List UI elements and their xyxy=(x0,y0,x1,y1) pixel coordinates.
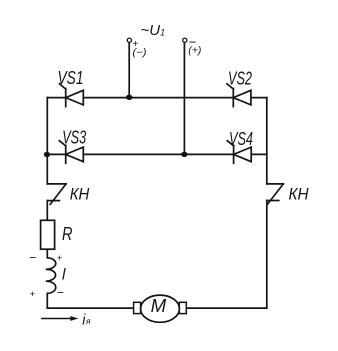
thyristor VS1 xyxy=(59,84,83,107)
inductor L xyxy=(46,258,56,294)
svg-text:VS3: VS3 xyxy=(62,128,86,148)
motor M brush right xyxy=(179,302,186,313)
contact KH right xyxy=(267,184,284,204)
wire terminal plus drop xyxy=(183,43,185,155)
svg-text:−: − xyxy=(29,250,36,264)
thyristor VS4 xyxy=(227,141,251,164)
resistor R xyxy=(41,220,55,249)
wire left rail upper xyxy=(46,98,48,184)
wire left rail mid xyxy=(46,201,48,258)
thyristor VS3 xyxy=(59,141,83,164)
wire right rail upper xyxy=(266,98,268,184)
motor M body xyxy=(141,295,180,322)
svg-text:iя: iя xyxy=(82,312,91,328)
wire bottom xyxy=(47,307,266,309)
svg-text:+: + xyxy=(57,253,63,264)
svg-text:M: M xyxy=(151,296,167,316)
wire row1 horizontal xyxy=(47,97,266,99)
terminal (−) circle xyxy=(127,38,131,42)
wire terminal minus drop xyxy=(128,43,130,98)
junction node at left terminal on row1 xyxy=(126,95,132,100)
wire right rail lower xyxy=(266,201,268,309)
terminal (+) circle xyxy=(183,38,187,42)
svg-text:КН: КН xyxy=(289,184,310,203)
contact KH left xyxy=(47,184,66,204)
svg-text:R: R xyxy=(62,223,73,244)
svg-text:+: + xyxy=(30,289,36,300)
current arrow i xyxy=(41,316,78,321)
junction node at right terminal on row2 xyxy=(181,152,187,157)
svg-text:−: − xyxy=(57,286,64,300)
svg-text:l: l xyxy=(62,267,66,284)
svg-text:(+): (+) xyxy=(188,44,201,56)
junction node at left rail on row2 xyxy=(44,152,50,157)
svg-text:КН: КН xyxy=(70,184,90,203)
motor M brush left xyxy=(134,302,141,313)
thyristor VS2 xyxy=(227,84,251,107)
svg-text:VS4: VS4 xyxy=(229,129,253,149)
svg-text:VS1: VS1 xyxy=(58,68,84,88)
wire row2 horizontal xyxy=(47,153,266,155)
svg-text:(−): (−) xyxy=(132,47,146,58)
wire left rail lower xyxy=(46,293,48,308)
svg-text:~U1: ~U1 xyxy=(141,22,166,39)
svg-text:VS2: VS2 xyxy=(228,68,252,88)
